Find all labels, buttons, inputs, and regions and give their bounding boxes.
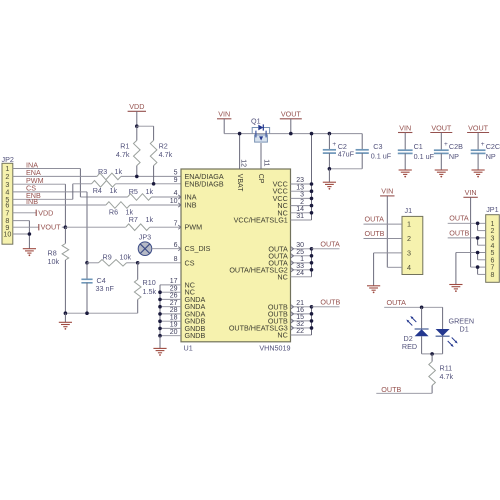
svg-text:9: 9 — [174, 177, 178, 184]
wire PWM from JP2 pin3 down to PWM node — [13, 183, 66, 185]
svg-text:1k: 1k — [146, 187, 154, 196]
svg-text:20: 20 — [170, 329, 178, 336]
U1 pin 16 (OUTB) stub and number — [291, 313, 312, 315]
svg-text:8: 8 — [490, 272, 494, 279]
U1 pin 17 (NC) stub and number — [160, 284, 181, 286]
junction R8 / rail — [64, 311, 68, 315]
wire OUTA net stub — [312, 248, 340, 250]
wire CS from JP2 pin4 down to R9 node — [13, 191, 87, 193]
svg-text:12: 12 — [239, 159, 246, 167]
junction VCC bus pin 13 — [310, 189, 314, 193]
junction OUTB bus pin 15 — [310, 319, 314, 323]
svg-text:13: 13 — [296, 184, 304, 191]
svg-text:4: 4 — [174, 190, 178, 197]
svg-text:28: 28 — [170, 307, 178, 314]
svg-text:+: + — [332, 141, 336, 148]
wire ENA from JP2 pin2 to R3 — [13, 175, 97, 177]
svg-text:OUTB: OUTB — [381, 385, 401, 394]
junction VCC bus pin 3 — [310, 197, 314, 201]
wire OUTB to J1 pin2 — [364, 238, 403, 240]
svg-text:VOUT: VOUT — [468, 123, 489, 132]
svg-text:8: 8 — [174, 256, 178, 263]
capacitor C3 — [361, 134, 363, 150]
svg-text:R7: R7 — [129, 215, 138, 224]
svg-text:23: 23 — [296, 177, 304, 184]
U1 pin 27 (GNDA) stub and number — [160, 306, 181, 308]
wire INB from JP2 pin6 to R6 — [13, 204, 106, 206]
junction JP2 pin10/pin8 — [28, 232, 32, 236]
junction R10 top — [136, 261, 140, 265]
svg-text:33: 33 — [296, 263, 304, 270]
junction GND bus pin 26 — [158, 298, 162, 302]
U1 pin 18 (GNDB) stub and number — [160, 320, 181, 322]
svg-text:17: 17 — [170, 278, 178, 285]
svg-text:VDD: VDD — [38, 208, 53, 217]
svg-text:5: 5 — [174, 170, 178, 177]
svg-text:JP1: JP1 — [486, 205, 498, 214]
svg-text:JP2: JP2 — [2, 155, 14, 164]
wire R10 node to U1 pin8 — [138, 262, 181, 264]
svg-text:JP3: JP3 — [139, 232, 151, 241]
svg-text:C1: C1 — [414, 142, 423, 151]
LED D1 (green) — [442, 307, 444, 329]
wire R5 to U1 pin4 — [152, 196, 182, 198]
U1 pin 24 (NC) stub and number — [291, 276, 312, 278]
svg-text:0.1 uF: 0.1 uF — [371, 151, 392, 160]
junction GND bus pin 19 — [158, 327, 162, 331]
junction GND bus pin 20 — [158, 334, 162, 338]
svg-text:7: 7 — [490, 265, 494, 272]
wire GND bus to ground — [159, 336, 161, 349]
svg-text:4: 4 — [490, 243, 494, 250]
svg-text:CS: CS — [185, 258, 195, 267]
junction VDD branch — [135, 124, 139, 128]
svg-text:24: 24 — [296, 270, 304, 277]
jumper JP3 — [138, 242, 152, 256]
svg-text:11: 11 — [263, 159, 270, 166]
svg-text:VIN: VIN — [465, 188, 477, 197]
svg-text:33 nF: 33 nF — [96, 284, 115, 293]
U1 pin 19 (GNDB) stub and number — [160, 327, 181, 329]
svg-text:OUTA: OUTA — [320, 239, 340, 248]
svg-text:INB: INB — [26, 197, 38, 206]
U1 pin 29 (NC) stub and number — [160, 291, 181, 293]
wire VIN to J1 pin4 — [386, 196, 388, 267]
svg-text:PWM: PWM — [185, 223, 203, 232]
ground C2B — [435, 169, 448, 171]
svg-text:4: 4 — [407, 263, 411, 272]
svg-text:3: 3 — [490, 236, 494, 243]
wire R9 to R10 node — [127, 262, 138, 264]
wire ENB from JP2 pin5 up to R4 row — [13, 198, 73, 200]
svg-text:NC: NC — [277, 272, 287, 281]
svg-text:21: 21 — [296, 300, 304, 307]
svg-text:1: 1 — [490, 221, 494, 228]
svg-text:1k: 1k — [115, 167, 123, 176]
U1 pin 11 (CP) stub and number — [260, 143, 262, 169]
junction OUTB bus pin 21 — [310, 305, 314, 309]
svg-text:NC: NC — [277, 331, 287, 340]
junction GND bus pin 28 — [158, 312, 162, 316]
net label VDD on pin7 — [35, 210, 37, 216]
U1 pin 12 (VBAT) stub and number — [239, 134, 241, 169]
resistor R1 — [136, 126, 138, 140]
U1 pin 30 (OUTA) stub and number — [291, 248, 312, 250]
connector JP1 — [486, 215, 500, 283]
junction OUTA bus pin 30 — [310, 247, 314, 251]
junction VCC bus pin 14 — [310, 211, 314, 215]
wire VIN to JP1 pins 7,8 — [470, 197, 472, 267]
junction C2 top — [328, 132, 332, 136]
svg-text:NP: NP — [449, 152, 459, 161]
junction D2 top — [420, 306, 424, 310]
svg-text:+: + — [444, 141, 448, 148]
svg-text:CP: CP — [257, 174, 264, 184]
svg-text:OUTB: OUTB — [320, 297, 340, 306]
svg-text:ENB/DIAGB: ENB/DIAGB — [185, 179, 224, 188]
svg-text:VOUT: VOUT — [41, 223, 62, 232]
U1 pin 3 (VCC) stub and number — [291, 197, 312, 199]
wire JP3 to U1 pin6 — [152, 248, 181, 250]
svg-text:OUTA: OUTA — [387, 298, 407, 307]
svg-text:C2C: C2C — [486, 142, 500, 151]
U1 pin 20 (GNDB) stub and number — [160, 335, 181, 337]
junction R11 top — [430, 352, 434, 356]
U1 pin 22 (NC) stub and number — [291, 334, 312, 336]
ground U1 GND bus — [153, 347, 166, 349]
U1 pin 13 (VCC) stub and number — [291, 190, 312, 192]
U1 pin 23 (VCC) stub and number — [291, 183, 312, 185]
wire VOUT stem — [290, 119, 292, 134]
U1 pin 2 (NC) stub and number — [291, 205, 312, 207]
junction R2 / ENB row — [152, 182, 156, 186]
svg-text:R3: R3 — [98, 167, 107, 176]
U1 pin 28 (GNDA) stub and number — [160, 313, 181, 315]
wire OUTA to JP1 pins 1,2 — [448, 222, 486, 224]
U1 pin 26 (GNDA) stub and number — [160, 298, 181, 300]
svg-text:2: 2 — [300, 199, 304, 206]
junction VCC bus pin 2 — [310, 204, 314, 208]
resistor R3 — [97, 173, 121, 180]
wire VOUT label to PWM node — [62, 226, 66, 228]
svg-text:7: 7 — [174, 220, 178, 227]
wire LED bottom rail — [422, 353, 443, 355]
wire INA from JP2 pin1 to R5 to U1 pin4 — [13, 168, 81, 170]
wire GND bus left — [159, 285, 161, 336]
wire PWM node to R7 — [65, 226, 125, 228]
svg-text:1.5k: 1.5k — [143, 287, 157, 296]
wire OUTA to J1 pin1 — [364, 223, 403, 225]
resistor R10 — [137, 263, 139, 280]
svg-text:C2B: C2B — [449, 142, 463, 151]
U1 pin 32 (OUTB/HEATSLG3) stub and number — [291, 327, 312, 329]
wire VIN stem — [223, 119, 225, 134]
svg-text:OUTB: OUTB — [449, 228, 469, 237]
ground C2C — [472, 169, 485, 171]
svg-text:R4: R4 — [93, 186, 102, 195]
resistor R8 — [64, 227, 66, 243]
svg-text:31: 31 — [296, 213, 304, 220]
transistor Q1 (reverse protection MOSFET) — [252, 124, 269, 142]
svg-text:10k: 10k — [48, 257, 60, 266]
junction GND bus pin 27 — [158, 305, 162, 309]
svg-text:RED: RED — [402, 342, 417, 351]
junction OUTA bus pin 1 — [310, 261, 314, 265]
capacitor C2B — [440, 133, 442, 151]
svg-text:27: 27 — [170, 300, 178, 307]
svg-text:6: 6 — [174, 242, 178, 249]
wire to ground C2 — [328, 169, 330, 182]
LED D2 emission arrows — [412, 318, 417, 323]
svg-text:VCC/HEATSLG1: VCC/HEATSLG1 — [234, 216, 288, 225]
ground J1 — [367, 285, 380, 287]
wire JP2 pin8 to ground — [13, 220, 30, 222]
svg-text:30: 30 — [296, 242, 304, 249]
wire OUTA rail to LEDs — [384, 306, 442, 308]
svg-text:R1: R1 — [120, 142, 129, 151]
svg-text:10: 10 — [3, 230, 11, 239]
junction VCC bus pin 23 — [310, 182, 314, 186]
svg-text:19: 19 — [170, 322, 178, 329]
junction GND bus pin 29 — [158, 290, 162, 294]
svg-text:OUTA: OUTA — [449, 214, 469, 223]
ground JP1 — [449, 284, 462, 286]
junction JP1 pin7 — [476, 265, 480, 269]
wire rail to ground — [64, 313, 66, 322]
wire C2/C3 bottom rail — [329, 168, 362, 170]
U1 pin 14 (NC) stub and number — [291, 212, 312, 214]
svg-text:R11: R11 — [440, 363, 453, 372]
svg-text:4.7k: 4.7k — [159, 150, 173, 159]
junction VCC bus top — [310, 132, 314, 136]
svg-text:1k: 1k — [110, 186, 118, 195]
U1 pin 31 (VCC/HEATSLG1) stub and number — [291, 219, 312, 221]
svg-text:VBAT: VBAT — [236, 174, 243, 192]
resistor R6 — [106, 202, 130, 209]
svg-text:Q1: Q1 — [251, 117, 261, 126]
svg-text:D1: D1 — [460, 325, 469, 334]
connector J1 — [402, 216, 423, 274]
svg-text:47uF: 47uF — [338, 150, 355, 159]
svg-text:R8: R8 — [48, 248, 57, 257]
svg-text:0.1 uF: 0.1 uF — [414, 152, 435, 161]
svg-text:18: 18 — [170, 314, 178, 321]
svg-text:3: 3 — [300, 192, 304, 199]
wire R7 to U1 pin7 — [150, 226, 181, 228]
junction OUTB bus pin 32 — [310, 326, 314, 330]
svg-text:10: 10 — [170, 198, 178, 205]
svg-text:VIN: VIN — [381, 187, 393, 196]
wire OUTA bus — [311, 249, 313, 277]
svg-text:VIN: VIN — [218, 110, 230, 119]
resistor R9 — [87, 262, 99, 264]
net label VOUT on pin9 — [38, 224, 40, 230]
wire main VIN/VOUT rail — [224, 133, 362, 135]
junction R1 / ENA row — [135, 175, 139, 179]
wire OUTB bus — [311, 307, 313, 335]
wire R3 to U1 pin5 — [121, 175, 181, 177]
resistor R7 — [126, 224, 150, 231]
op-amp U1 VNH5019 body — [181, 169, 291, 342]
svg-text:22: 22 — [296, 328, 304, 335]
U1 pin 1 (OUTA) stub and number — [291, 262, 312, 264]
ground C2/C3 — [323, 181, 336, 183]
U1 pin 33 (OUTA/HEATSLG2) stub and number — [291, 269, 312, 271]
wire R6 to U1 pin10 — [130, 204, 181, 206]
junction C4 / rail — [85, 311, 89, 315]
svg-text:R6: R6 — [109, 208, 118, 217]
connector JP2 — [2, 163, 13, 244]
svg-text:VOUT: VOUT — [281, 110, 302, 119]
svg-text:2: 2 — [407, 234, 411, 243]
ground C1 — [399, 169, 412, 171]
ground JP2 — [23, 248, 36, 250]
wire VOUT stub JP2 pin9 — [13, 226, 39, 228]
LED D1 emission arrows — [448, 341, 453, 346]
svg-text:15: 15 — [296, 314, 304, 321]
junction JP1 pin1 — [476, 222, 480, 226]
svg-text:INB: INB — [185, 201, 197, 210]
wire VDD branch to R2 — [137, 125, 154, 127]
capacitor C1 — [404, 133, 406, 151]
junction OUTB bus pin 16 — [310, 312, 314, 316]
junction PWM node (VOUT,R8,R7) — [64, 225, 68, 229]
svg-text:J1: J1 — [405, 206, 413, 215]
junction JP1 pin3 — [476, 236, 480, 240]
LED D2 (red) — [421, 307, 423, 329]
svg-text:4.7k: 4.7k — [440, 372, 454, 381]
svg-text:CS_DIS: CS_DIS — [185, 244, 211, 253]
svg-text:2: 2 — [490, 228, 494, 235]
svg-text:OUTA: OUTA — [365, 215, 385, 224]
resistor R4 — [92, 181, 116, 188]
wire J1 pin3 to ground — [374, 252, 402, 254]
svg-text:+: + — [481, 141, 485, 148]
svg-text:VDD: VDD — [129, 102, 144, 111]
svg-text:R2: R2 — [159, 142, 168, 151]
wire JP2 pin10 to ground — [13, 233, 30, 235]
junction OUTA bus pin 33 — [310, 268, 314, 272]
wire VDD stub JP2 pin7 — [13, 212, 36, 214]
svg-text:14: 14 — [296, 206, 304, 213]
svg-text:29: 29 — [170, 285, 178, 292]
wire OUTB to R11 — [376, 392, 432, 394]
wire OUTB to JP1 pins 3,4 — [448, 237, 486, 239]
wire JP1 pins 5,6 to ground — [456, 252, 486, 254]
svg-text:VOUT: VOUT — [431, 123, 452, 132]
U1 pin 15 (OUTB) stub and number — [291, 320, 312, 322]
junction VBAT — [238, 132, 242, 136]
svg-text:R9: R9 — [103, 252, 112, 261]
svg-text:26: 26 — [170, 293, 178, 300]
svg-text:1: 1 — [300, 256, 304, 263]
svg-text:5: 5 — [490, 250, 494, 257]
junction VOUT — [289, 132, 293, 136]
svg-text:U1: U1 — [184, 344, 193, 353]
U1 pin 25 (OUTA) stub and number — [291, 255, 312, 257]
wire VCC bus — [311, 134, 313, 220]
svg-text:C3: C3 — [373, 142, 382, 151]
svg-text:16: 16 — [296, 307, 304, 314]
capacitor C4 — [86, 263, 88, 280]
svg-text:GNDB: GNDB — [185, 331, 206, 340]
junction C2 bottom — [328, 167, 332, 171]
resistor R2 — [153, 126, 155, 140]
wire VDD stem — [136, 111, 138, 126]
svg-text:R10: R10 — [143, 278, 156, 287]
resistor R11 — [431, 354, 433, 362]
junction CS / R9 / C4 — [85, 261, 89, 265]
wire ground rail R8/C4/R10 — [65, 312, 137, 314]
svg-text:VIN: VIN — [399, 123, 411, 132]
capacitor C2 — [328, 134, 330, 150]
svg-text:3: 3 — [407, 249, 411, 258]
wire R4 to U1 pin9 — [116, 183, 182, 185]
wire OUTB net stub — [312, 306, 340, 308]
junction JP1 pin5 — [476, 251, 480, 255]
svg-text:OUTB: OUTB — [365, 229, 385, 238]
capacitor C2C — [477, 133, 479, 151]
svg-text:R5: R5 — [129, 187, 138, 196]
U1 pin 21 (OUTB) stub and number — [291, 306, 312, 308]
resistor R5 — [128, 194, 152, 201]
ground rail — [59, 321, 72, 323]
svg-text:32: 32 — [296, 321, 304, 328]
svg-text:NP: NP — [486, 152, 496, 161]
svg-text:6: 6 — [490, 257, 494, 264]
svg-text:1: 1 — [407, 220, 411, 229]
svg-text:VHN5019: VHN5019 — [259, 344, 290, 353]
svg-text:10k: 10k — [120, 252, 132, 261]
svg-text:1k: 1k — [146, 215, 154, 224]
svg-text:25: 25 — [296, 249, 304, 256]
junction OUTA bus pin 25 — [310, 254, 314, 258]
svg-text:4.7k: 4.7k — [116, 150, 130, 159]
junction GND bus pin 18 — [158, 319, 162, 323]
